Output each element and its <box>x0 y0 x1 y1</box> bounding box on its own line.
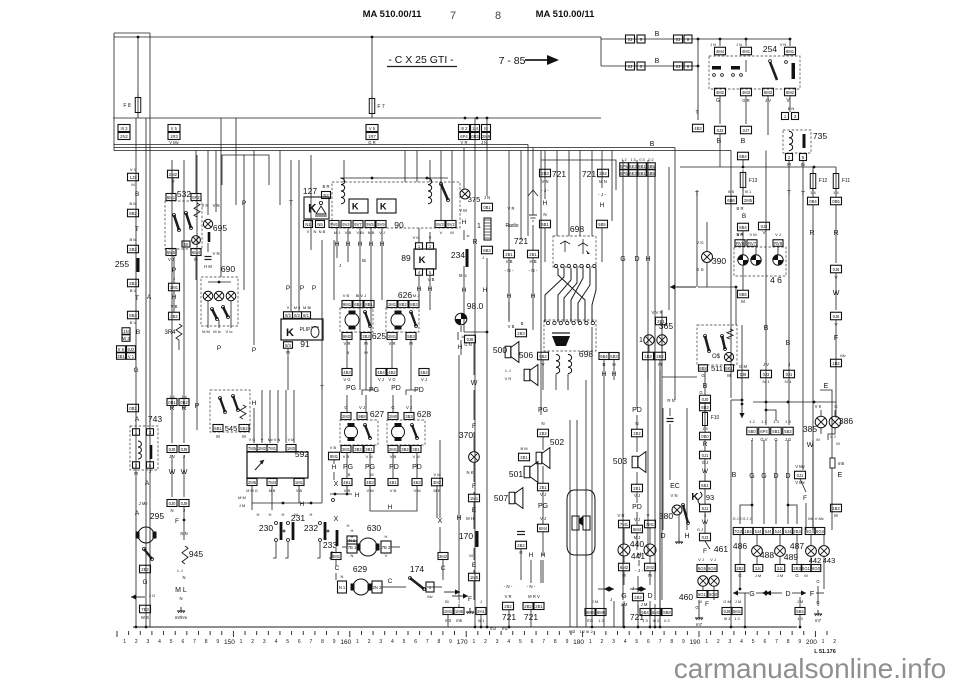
junction rail 465 <box>464 117 467 120</box>
junction rail 487 <box>486 117 489 120</box>
svg-text:V G: V G <box>343 377 350 382</box>
header page number 7 <box>450 10 456 22</box>
wire W col x184 <box>183 455 185 497</box>
net M x366b <box>364 350 367 355</box>
net J N pin254a <box>710 43 716 47</box>
wire x448 tail <box>447 615 449 627</box>
wire x481 tail <box>480 615 482 627</box>
svg-text:8/2: 8/2 <box>285 313 291 318</box>
svg-text:8M1: 8M1 <box>786 49 795 54</box>
connector 2B1 x539 <box>534 603 544 610</box>
svg-text:H: H <box>252 400 257 407</box>
connector 3M2 x437 <box>432 478 443 486</box>
wire 443 stem <box>823 535 825 546</box>
net J M x758 <box>755 573 761 578</box>
connector 3B2 628 <box>400 446 410 453</box>
svg-text:4 6: 4 6 <box>770 275 782 285</box>
net B x604 <box>602 362 605 367</box>
wire x459 col <box>458 355 460 600</box>
svg-text:7B 2: 7B 2 <box>382 545 391 550</box>
svg-text:380: 380 <box>659 511 673 521</box>
label 503 <box>613 456 627 466</box>
node P x197 <box>195 403 200 410</box>
svg-text:L J: L J <box>830 434 835 439</box>
net J x634 <box>632 586 634 591</box>
net W S x145 <box>141 615 149 620</box>
connector 6G1 <box>801 565 811 572</box>
svg-text:0J: 0J <box>628 64 632 69</box>
svg-text:V B: V B <box>428 277 435 282</box>
svg-text:6M3: 6M3 <box>652 610 661 615</box>
connector 8M1 x334 <box>329 452 340 460</box>
net M M G x252 <box>246 489 257 493</box>
net 1 3 x645 <box>642 618 648 623</box>
svg-text:V J: V J <box>775 232 781 237</box>
connector V1 low <box>127 353 136 360</box>
connector 0J1 x788 <box>784 370 795 378</box>
connector 3B2 x174 <box>169 312 180 320</box>
svg-text:N K: N K <box>467 470 474 475</box>
arrow right of 7-85 <box>525 55 559 65</box>
svg-text:3M1: 3M1 <box>332 554 341 559</box>
svg-text:X: X <box>334 481 339 488</box>
net B N x790 <box>788 106 795 111</box>
junction x766 402 <box>765 401 768 404</box>
net G x698 <box>695 605 698 610</box>
net 1 3 x788b <box>785 419 791 424</box>
sheet reference L 51.176 <box>814 649 836 655</box>
node H x459b <box>456 515 461 522</box>
lock motor unit 626 body <box>386 308 419 332</box>
svg-text:2B2: 2B2 <box>539 431 547 436</box>
svg-text:2B3: 2B3 <box>793 566 801 571</box>
handset holder <box>567 490 595 555</box>
svg-text:3: 3 <box>379 639 382 645</box>
wire lamp486 tail <box>756 556 758 564</box>
wire chain x136 <box>135 118 137 627</box>
net J x705b <box>704 513 706 518</box>
net V x836a <box>834 275 837 280</box>
wire x602 up <box>601 151 603 189</box>
connector 8J4 <box>284 342 293 349</box>
svg-text:5G1: 5G1 <box>698 592 707 597</box>
node H x509 <box>507 293 512 300</box>
svg-text:- J -: - J - <box>541 188 549 193</box>
connector 2B2 x660 <box>655 352 666 360</box>
label 91 <box>300 339 310 349</box>
lamp 690c <box>226 291 236 301</box>
node P x174 <box>172 267 176 274</box>
svg-text:M L: M L <box>175 587 187 594</box>
resistor in 511 <box>727 329 733 339</box>
svg-text:2H1: 2H1 <box>477 609 485 614</box>
wire spine x150 <box>149 33 151 627</box>
wire x528 down <box>527 145 529 237</box>
node W x474 <box>471 380 478 387</box>
svg-text:P: P <box>312 285 316 292</box>
svg-text:4: 4 <box>158 639 161 645</box>
connector 7B3 <box>140 605 151 613</box>
connector N1 x342 <box>338 581 347 593</box>
svg-text:5: 5 <box>286 639 289 645</box>
net J x484 <box>481 140 487 145</box>
label 461 <box>714 544 728 554</box>
connector 6M2 x624 <box>619 563 630 571</box>
wire stub x441 <box>440 151 442 222</box>
connector 2N2 x377 <box>372 581 382 593</box>
svg-text:B M: B M <box>129 237 136 242</box>
wire x604 down <box>603 360 605 627</box>
wire B col x788 <box>788 237 790 425</box>
net J x459c <box>458 599 460 604</box>
svg-text:3B2: 3B2 <box>401 447 409 452</box>
net R N x671 <box>667 398 674 403</box>
wire F7 drop <box>371 37 373 99</box>
node PG x351 <box>346 385 356 392</box>
svg-text:2B2: 2B2 <box>129 247 137 252</box>
connector 6B6 <box>726 196 737 204</box>
wire x278 down <box>277 390 279 443</box>
node PD low a <box>389 464 399 471</box>
wire x344 up <box>343 160 345 182</box>
net V x386 <box>385 553 388 558</box>
wire left into 511 <box>662 376 697 378</box>
node B mid rail <box>650 141 655 148</box>
net G J row486 <box>733 517 752 521</box>
junction 720 rail <box>719 38 722 41</box>
connector 2B1 x543 <box>538 483 549 491</box>
wire elbow x776 <box>766 410 776 421</box>
svg-text:K: K <box>286 327 294 339</box>
svg-text:5J4: 5J4 <box>755 529 762 534</box>
svg-text:E: E <box>824 383 829 390</box>
svg-text:F: F <box>175 518 179 525</box>
svg-text:M M: M M <box>202 329 210 334</box>
connector 2B3 x797 <box>792 528 802 535</box>
wire x521 down <box>520 549 522 580</box>
wire x818 tail <box>817 586 819 606</box>
connector 8B2 <box>128 209 139 217</box>
net G x346 <box>344 405 347 410</box>
svg-text:PLIP: PLIP <box>300 327 312 333</box>
node H x543 <box>541 552 546 559</box>
net 1 2 x585 <box>579 629 593 634</box>
label 545 <box>225 424 238 433</box>
svg-text:0J0: 0J0 <box>169 501 176 506</box>
terminal Ic 98 <box>458 332 465 340</box>
label 721 x637 <box>630 612 644 622</box>
pin5 743 <box>147 462 154 469</box>
svg-text:4B3: 4B3 <box>343 370 351 375</box>
wire x697 Tcol <box>696 190 698 287</box>
wire x601 link <box>600 37 602 66</box>
connector 8B5 <box>738 290 749 298</box>
node T x789 <box>787 190 791 197</box>
net G x703b <box>699 390 702 395</box>
connector N5 <box>316 221 325 228</box>
net M 743 <box>134 471 138 476</box>
connector RV6 <box>735 240 745 247</box>
wire 365a down <box>648 345 650 352</box>
node H x531 <box>529 552 534 559</box>
svg-text:2B1: 2B1 <box>633 486 641 491</box>
connector 5B4 x604 <box>599 353 609 360</box>
svg-text:0J0: 0J0 <box>702 397 709 402</box>
svg-text:P: P <box>217 345 221 352</box>
svg-text:II 5: II 5 <box>171 126 177 131</box>
wire x687 col <box>686 408 688 530</box>
wire x270 down <box>269 390 271 443</box>
node G x136 <box>133 367 138 374</box>
net V R x624 <box>618 513 625 518</box>
header label MA 510.00/11 left <box>363 9 423 20</box>
svg-text:N: N <box>314 229 317 234</box>
wire F12 chain <box>812 188 814 197</box>
wire bus 698-790 <box>698 38 790 40</box>
net Bi corner x364 <box>362 258 366 263</box>
lamp 690a <box>203 291 213 301</box>
net V J x703 <box>698 557 704 562</box>
node PD low b <box>412 464 422 471</box>
svg-text:7: 7 <box>659 639 662 645</box>
svg-text:8M2: 8M2 <box>786 90 795 95</box>
wire PG col x541 <box>540 151 542 416</box>
svg-text:J M: J M <box>641 602 648 607</box>
net M B x272 <box>269 489 276 493</box>
wire x614 base <box>613 601 615 627</box>
net G under 4M2 <box>716 98 720 104</box>
net G J x705 <box>702 460 709 465</box>
svg-text:1 2: 1 2 <box>734 616 740 621</box>
net J V x766 <box>763 362 769 367</box>
svg-text:W: W <box>702 519 709 526</box>
switch 174 <box>409 577 426 591</box>
connector 60 <box>182 241 190 247</box>
connector 6J1 x705 <box>700 504 711 512</box>
svg-text:X: X <box>438 518 443 525</box>
net V R x347 <box>344 341 351 346</box>
wire x637 seg6 <box>636 533 638 550</box>
svg-text:721: 721 <box>552 169 566 179</box>
svg-text:6M1: 6M1 <box>167 195 176 200</box>
node H x357 <box>355 492 360 499</box>
connector 2M2 x346 <box>341 413 351 420</box>
net N x181 <box>179 596 182 601</box>
pin2 89 <box>427 243 434 250</box>
net G x740 <box>738 573 741 578</box>
svg-text:1M6: 1M6 <box>455 609 464 614</box>
wire 385 up <box>820 410 822 416</box>
wire pd1b <box>392 453 394 478</box>
wire 174 right <box>427 586 442 588</box>
svg-text:G: G <box>774 437 777 442</box>
wire 390 down <box>706 263 708 287</box>
net V R 46 <box>737 232 744 237</box>
connector RV7 <box>747 240 757 247</box>
net Mv x836 <box>840 353 845 358</box>
svg-text:2M2: 2M2 <box>342 414 351 419</box>
label 486 <box>733 541 747 551</box>
wire top rail upper <box>114 32 150 34</box>
connector 4M1 <box>741 47 752 55</box>
svg-text:7: 7 <box>309 639 312 645</box>
fuse F8 <box>135 95 141 116</box>
svg-text:1R7: 1R7 <box>368 134 376 139</box>
net 1 2 strip <box>621 158 626 162</box>
wire 386 up <box>834 410 836 416</box>
connector 1B2 <box>831 359 842 367</box>
svg-text:H: H <box>347 523 350 528</box>
connector 0J9 x184b <box>179 500 189 507</box>
svg-text:M Ic: M Ic <box>213 329 221 334</box>
label 721 x521 <box>514 236 528 246</box>
svg-text:K: K <box>380 202 387 212</box>
svg-text:174: 174 <box>410 564 424 574</box>
connector 4B3 aa <box>365 479 375 486</box>
node PG x543b <box>538 503 548 510</box>
capacitor x521 <box>517 532 525 535</box>
wire F13 down <box>742 187 744 196</box>
svg-text:627: 627 <box>370 409 384 419</box>
net V M x437 <box>433 472 440 477</box>
net M x472 <box>469 553 472 558</box>
svg-text:III 1: III 1 <box>724 616 731 621</box>
node A x147 <box>145 480 150 487</box>
net G M x727 <box>723 599 731 604</box>
svg-text:Radio: Radio <box>505 223 518 229</box>
svg-text:4: 4 <box>624 639 627 645</box>
wire 690 o2 <box>218 320 220 328</box>
svg-text:390: 390 <box>712 256 726 266</box>
svg-text:2M1: 2M1 <box>389 447 398 452</box>
wire 46 gnd link <box>698 286 736 288</box>
svg-text:0B5: 0B5 <box>832 199 840 204</box>
connector III2 <box>459 125 470 132</box>
svg-text:0J9: 0J9 <box>181 501 188 506</box>
title CX 25 GTI <box>387 54 457 67</box>
net J N pin254b <box>736 43 742 47</box>
svg-text:0B1: 0B1 <box>483 205 491 210</box>
svg-text:PD: PD <box>632 407 642 414</box>
wire 254 pin3 up <box>789 39 791 46</box>
connector 6P4 x764 <box>759 427 770 435</box>
node X x440 <box>438 518 443 525</box>
net B V x133 <box>130 288 137 293</box>
net M M x243 <box>238 495 246 500</box>
node W x705 <box>702 468 709 475</box>
switch 532a <box>173 214 181 232</box>
svg-text:B V: B V <box>130 288 137 293</box>
svg-text:0J: 0J <box>676 37 680 42</box>
wire x262 down <box>261 390 263 443</box>
node W x184 <box>181 469 188 476</box>
connector row2b <box>637 62 645 70</box>
wire stub x417 <box>416 151 418 183</box>
svg-text:2M5: 2M5 <box>744 198 753 203</box>
svg-text:489: 489 <box>784 552 798 562</box>
node H x174 <box>172 294 177 301</box>
wire E elbow <box>820 390 832 458</box>
net m3 x448 <box>445 618 451 623</box>
wire H bus <box>252 502 322 504</box>
net H x311 <box>310 512 313 517</box>
svg-text:6B1: 6B1 <box>701 483 709 488</box>
wire x336 down <box>335 560 337 566</box>
wire W col x172 <box>171 455 173 497</box>
transistors in 698 <box>560 239 590 254</box>
svg-text:8M0: 8M0 <box>597 610 606 615</box>
node B x720 <box>717 138 722 145</box>
svg-text:G: G <box>142 579 147 586</box>
net G x818b <box>816 600 819 605</box>
svg-text:630: 630 <box>367 523 381 533</box>
electronic ignition unit 698 <box>553 236 596 267</box>
label F13 <box>749 178 758 184</box>
direction arrows D <box>630 586 646 591</box>
net V R x464 <box>461 140 468 145</box>
junction 46 link <box>735 286 738 289</box>
wire x660 base2 <box>659 370 661 627</box>
wire 592 o1 <box>251 486 253 510</box>
wire harness crossing 698 <box>545 268 596 322</box>
svg-text:5B0: 5B0 <box>748 429 756 434</box>
wire x543 seg4 <box>542 532 544 556</box>
connector 1M6 low <box>454 608 464 615</box>
net J Mv 295 <box>139 501 149 506</box>
svg-text:M N: M N <box>599 179 607 184</box>
capacitor 695b <box>205 257 212 260</box>
svg-text:7: 7 <box>450 10 456 22</box>
svg-text:V R: V R <box>618 513 625 518</box>
svg-text:8B2: 8B2 <box>129 211 137 216</box>
node B row2 <box>655 58 660 65</box>
net III 1 x727 <box>724 616 731 621</box>
node A x137 515 <box>135 510 140 517</box>
relay K 90b <box>377 199 396 213</box>
label 460 <box>679 592 693 602</box>
net M x196 <box>194 257 198 262</box>
wire R column <box>474 118 476 600</box>
switch contacts inside 254 <box>712 60 795 80</box>
net H x258 <box>257 512 260 517</box>
svg-text:III 3: III 3 <box>121 126 129 131</box>
connector 0B1 x172 <box>167 399 177 406</box>
arrow baseline left <box>444 589 460 594</box>
svg-text:V: V <box>261 438 264 442</box>
svg-text:J N: J N <box>710 43 716 47</box>
wire chain x705 e <box>704 489 706 504</box>
svg-text:N: N <box>543 212 546 217</box>
svg-text:m6: m6 <box>456 618 462 623</box>
net B M x133 <box>129 201 136 206</box>
svg-text:V N: V N <box>202 203 209 208</box>
net -N- x533 <box>529 268 538 273</box>
label 46 <box>770 275 782 285</box>
net N x315 <box>314 229 317 234</box>
svg-text:B: B <box>655 58 660 65</box>
svg-text:IV 1: IV 1 <box>762 379 770 384</box>
svg-text:1 2: 1 2 <box>598 618 604 623</box>
wire x602 mid <box>601 228 603 262</box>
junction 283 503 <box>282 502 285 505</box>
svg-text:4B3: 4B3 <box>694 126 702 131</box>
connector 3B3 a <box>361 333 371 340</box>
svg-text:T: T <box>695 191 699 198</box>
label 98.0 <box>467 301 484 311</box>
svg-text:6G1: 6G1 <box>802 566 811 571</box>
connector 2H1 low <box>476 608 486 615</box>
wire D col x788 <box>787 440 789 524</box>
